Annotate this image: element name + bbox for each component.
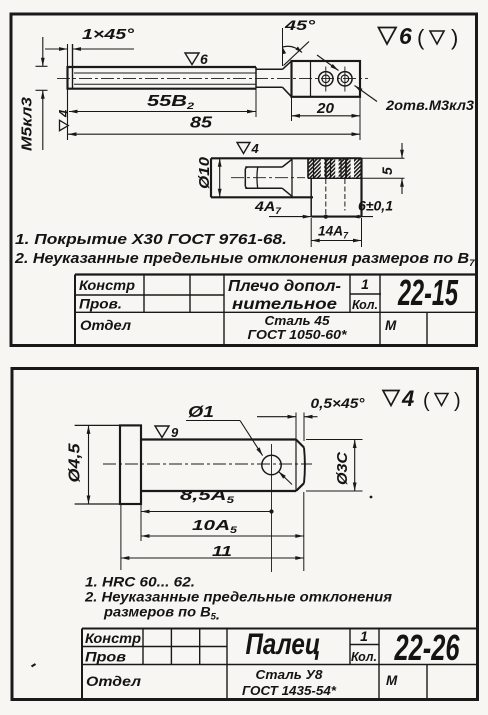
svg-text:4: 4 [251, 141, 260, 156]
svg-text:Ø1: Ø1 [188, 404, 214, 421]
svg-text:М: М [386, 673, 398, 688]
svg-text:1: 1 [360, 628, 368, 644]
svg-text:4: 4 [401, 386, 414, 411]
svg-text:Пров.: Пров. [79, 297, 122, 312]
svg-text:85: 85 [190, 115, 212, 132]
svg-text:1. HRC 60... 62.: 1. HRC 60... 62. [85, 574, 195, 590]
svg-text:Палец: Палец [246, 628, 321, 661]
svg-text:1: 1 [361, 276, 369, 292]
svg-text:6±0,1: 6±0,1 [358, 198, 393, 214]
svg-text:М: М [385, 318, 397, 333]
svg-text:нительное: нительное [232, 296, 337, 313]
svg-text:4: 4 [56, 109, 71, 118]
svg-text:1. Покрытие Х30 ГОСТ 9761-68.: 1. Покрытие Х30 ГОСТ 9761-68. [15, 231, 287, 248]
svg-text:М5кл3: М5кл3 [20, 97, 36, 151]
svg-text:6: 6 [399, 23, 412, 49]
svg-text:Сталь 45: Сталь 45 [265, 313, 331, 328]
svg-text:Ø4,5: Ø4,5 [67, 443, 84, 482]
svg-text:22-26: 22-26 [394, 627, 460, 668]
svg-text:2отв.М3кл3: 2отв.М3кл3 [385, 97, 474, 113]
svg-text:Кол.: Кол. [351, 650, 377, 664]
svg-text:Отдел: Отдел [80, 318, 132, 333]
svg-text:11: 11 [212, 543, 232, 560]
svg-text:20: 20 [316, 100, 335, 117]
svg-text:Констр: Констр [79, 278, 135, 293]
svg-text:22-15: 22-15 [397, 272, 458, 313]
svg-text:6: 6 [200, 51, 208, 67]
svg-text:45°: 45° [284, 17, 316, 33]
svg-text:Ø10: Ø10 [197, 157, 213, 189]
svg-text:1×45°: 1×45° [82, 26, 135, 43]
svg-text:Констр: Констр [85, 631, 141, 646]
svg-text:): ) [451, 25, 458, 50]
svg-text:Плечо допол-: Плечо допол- [228, 278, 341, 295]
svg-text:(: ( [417, 25, 425, 50]
svg-text:): ) [454, 390, 461, 412]
svg-text:Пров: Пров [85, 650, 126, 665]
svg-text:5: 5 [379, 167, 395, 175]
svg-text:9: 9 [171, 425, 179, 440]
svg-text:2. Неуказанные предельные о: 2. Неуказанные предельные отклонения [84, 589, 392, 605]
svg-text:Сталь У8: Сталь У8 [256, 667, 324, 682]
svg-text:ГОСТ 1050-60*: ГОСТ 1050-60* [248, 327, 348, 342]
svg-text:Отдел: Отдел [86, 674, 142, 689]
svg-text:55В2: 55В2 [147, 93, 194, 111]
svg-text:(: ( [423, 390, 430, 412]
svg-text:0,5×45°: 0,5×45° [311, 395, 365, 411]
svg-text:Ø3С: Ø3С [334, 451, 351, 485]
svg-text:ГОСТ 1435-54*: ГОСТ 1435-54* [242, 683, 337, 698]
svg-text:Кол.: Кол. [352, 298, 378, 312]
